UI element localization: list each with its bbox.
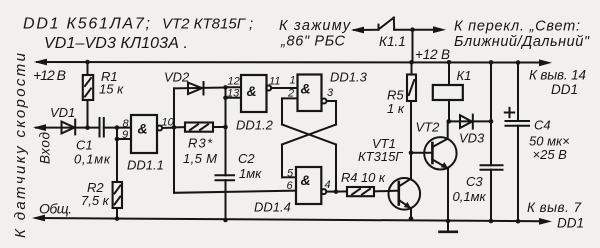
- op-amp gate DD1.2: [226, 75, 298, 112]
- junction: VD3 cathode node: [489, 119, 494, 124]
- node: K vyv.7 right arrow: [539, 218, 552, 225]
- node: K1.1 right arrow to light switch: [433, 26, 446, 33]
- svg-text:VD3: VD3: [459, 131, 485, 146]
- junction: R1 bottom on input line: [85, 125, 90, 130]
- svg-text:1мк: 1мк: [239, 166, 262, 181]
- op-amp gate DD1.1: [131, 115, 174, 153]
- wire: input line: [36, 127, 99, 129]
- capacitor C4 (electrolytic): [506, 63, 530, 222]
- junction: pin10 node: [172, 125, 177, 130]
- svg-text:К зажиму: К зажиму: [279, 18, 351, 34]
- junction: VT1 emitter on ground rail: [409, 216, 414, 221]
- junction: pin13 tie: [223, 96, 228, 101]
- svg-text:10: 10: [162, 117, 175, 129]
- svg-text:3: 3: [327, 87, 334, 99]
- junction: pin9 branch: [115, 137, 120, 142]
- junction: VT2 base node: [409, 151, 414, 156]
- svg-text:С3: С3: [466, 174, 483, 189]
- junction: C2 bottom on ground rail: [223, 218, 228, 223]
- svg-text:С2: С2: [238, 151, 255, 166]
- svg-text:7,5 к: 7,5 к: [81, 193, 110, 208]
- junction: VT2 emitter on ground rail: [446, 219, 451, 224]
- svg-text:R4 10 к: R4 10 к: [341, 170, 386, 185]
- svg-text:12: 12: [228, 76, 240, 88]
- resistor R4: [336, 187, 399, 196]
- junction: C3 branch on +12V rail: [489, 60, 494, 65]
- junction: K1.1 branch: [410, 27, 415, 32]
- svg-text:DD1.1: DD1.1: [127, 158, 164, 173]
- svg-text:15 к: 15 к: [99, 82, 124, 97]
- svg-text:&: &: [247, 83, 257, 99]
- junction: C3 bottom on ground rail: [489, 219, 494, 224]
- resistor R3: [174, 123, 226, 132]
- svg-text:13: 13: [227, 88, 240, 100]
- junction: K1 top on +12V rail: [447, 60, 452, 65]
- svg-text:С4: С4: [534, 118, 551, 133]
- transistor VT2: [411, 121, 457, 220]
- svg-text:VT2: VT2: [416, 120, 441, 135]
- svg-text:К1.1: К1.1: [379, 34, 406, 49]
- svg-text:+12 В: +12 В: [415, 47, 450, 62]
- node: C4 plus sign: [505, 108, 514, 117]
- junction: K1 / VD3 / VT2 collector node: [447, 119, 452, 124]
- svg-text:4: 4: [325, 179, 331, 191]
- svg-text:VD2: VD2: [164, 70, 190, 85]
- svg-text:&: &: [301, 81, 311, 97]
- op-amp gate DD1.4: [296, 167, 336, 204]
- svg-text:К выв. 7: К выв. 7: [527, 200, 581, 215]
- svg-text:DD1.3: DD1.3: [330, 70, 368, 85]
- svg-text:VD1: VD1: [50, 105, 75, 120]
- junction: pin12 tie: [223, 85, 228, 90]
- svg-text:Вход: Вход: [38, 131, 53, 164]
- node: +12V left arrow: [34, 59, 47, 66]
- svg-text:К выв. 14: К выв. 14: [529, 68, 586, 83]
- svg-text:DD1: DD1: [551, 82, 578, 97]
- svg-text:К1: К1: [457, 68, 472, 83]
- junction: R2 bottom on ground rail: [115, 216, 120, 221]
- junction: R1 top on +12V rail: [85, 60, 90, 65]
- diode VD1: [62, 120, 76, 135]
- svg-text:„86" РБС: „86" РБС: [280, 34, 346, 50]
- svg-text:1 к: 1 к: [387, 101, 405, 116]
- svg-text:9: 9: [122, 129, 128, 141]
- svg-text:Общ.: Общ.: [39, 201, 72, 217]
- junction: R3 right / C2 / DD1.2 inputs node: [223, 125, 228, 130]
- diode VD2: [174, 82, 226, 95]
- svg-text:1,5 М: 1,5 М: [183, 151, 217, 166]
- svg-text:К перекл. „Свет:: К перекл. „Свет:: [454, 19, 580, 35]
- node: ground left arrow: [32, 215, 45, 222]
- resistor R1: [83, 62, 93, 128]
- svg-text:Ближний/Дальний": Ближний/Дальний": [454, 34, 590, 50]
- junction: C4 bottom on ground rail: [516, 219, 521, 224]
- wire: RS latch cross coupling: [282, 98, 336, 191]
- capacitor C1: [100, 118, 132, 137]
- diode VD3: [449, 115, 491, 129]
- junction: R5 top on +12V rail: [409, 60, 414, 65]
- svg-text:0,1мк: 0,1мк: [453, 189, 487, 204]
- capacitor C3: [481, 165, 503, 221]
- wire: DD1.2 input tie vertical: [225, 87, 227, 175]
- junction: C4 top on +12V rail: [516, 60, 521, 65]
- svg-text:×25 В: ×25 В: [533, 147, 568, 162]
- junction: pin4 output node: [334, 189, 339, 194]
- junction: input node at x117: [115, 125, 120, 130]
- resistor R2: [113, 182, 122, 219]
- svg-text:&: &: [301, 172, 311, 188]
- capacitor C2: [216, 175, 235, 220]
- ground chassis symbol: [440, 221, 457, 232]
- svg-text:DD1.4: DD1.4: [254, 200, 291, 215]
- switch contact K1.1: [354, 18, 434, 63]
- svg-text:DD1.2: DD1.2: [236, 118, 274, 133]
- svg-text:0,1мк: 0,1мк: [74, 152, 111, 167]
- svg-text:DD1 К561ЛА7;: DD1 К561ЛА7;: [23, 16, 150, 33]
- svg-text:С1: С1: [76, 138, 93, 153]
- relay coil K1: [433, 62, 463, 121]
- wire: branch to pin9 and R2: [117, 128, 131, 182]
- svg-text:&: &: [138, 121, 148, 137]
- node: K1.1 left arrow to terminal 86: [351, 27, 364, 34]
- svg-text:1: 1: [290, 75, 296, 87]
- svg-text:+12 В: +12 В: [33, 67, 66, 83]
- svg-text:5: 5: [287, 168, 294, 180]
- svg-text:6: 6: [287, 180, 294, 192]
- svg-text:DD1: DD1: [557, 216, 584, 231]
- node: input left arrow: [33, 124, 46, 131]
- svg-text:2: 2: [287, 88, 294, 100]
- wire: +12V top rail: [37, 61, 543, 64]
- transistor VT1: [389, 101, 421, 218]
- node: K vyv.14 right arrow: [539, 59, 552, 66]
- resistor R5: [407, 62, 416, 101]
- wire: vertical node x174 (pin10 / VD2 / pin6 feedback): [174, 88, 296, 192]
- wire: ground bottom rail: [36, 218, 542, 221]
- svg-text:КТ315Г: КТ315Г: [358, 149, 403, 164]
- op-amp gate DD1.3: [282, 75, 336, 112]
- wire: +12V to C3 vertical: [490, 62, 492, 165]
- svg-text:11: 11: [269, 76, 280, 88]
- svg-text:VD1–VD3 КЛ103А .: VD1–VD3 КЛ103А .: [44, 35, 188, 52]
- svg-text:VT2 КТ815Г ;: VT2 КТ815Г ;: [162, 16, 253, 33]
- svg-text:R3*: R3*: [188, 136, 213, 151]
